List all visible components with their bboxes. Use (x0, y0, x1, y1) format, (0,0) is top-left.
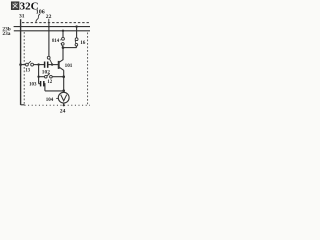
leader dash for 814 (60, 39, 61, 41)
switch S14 lever (61, 43, 63, 47)
wire tap from 23b down (48, 22, 50, 56)
svg-text:814: 814 (52, 39, 60, 44)
switch S14 upper lead (62, 31, 64, 38)
node on wire 31 for switch 13 (19, 63, 22, 66)
switch contact terminal circle (47, 56, 50, 59)
transistor 101 emitter slant (59, 67, 64, 70)
capacitor 102 left plate (44, 62, 46, 68)
switch 13 right contact circle (31, 63, 34, 66)
switch 13 lever (28, 61, 31, 64)
wire corner at bottom left (21, 104, 25, 106)
capacitor 103 right plate (43, 81, 45, 86)
capacitor 103 left lead (39, 83, 41, 85)
switch 12 left lead (39, 76, 45, 78)
node on emitter wire (62, 75, 65, 78)
svg-text:106: 106 (36, 10, 45, 16)
wire 23b (14, 26, 90, 28)
node on wire 23a at x63 (62, 30, 64, 32)
emitter wire down (63, 70, 65, 91)
base wire left segment (33, 64, 44, 66)
switch lever to base node (50, 59, 53, 64)
node at switch 12 branch (37, 76, 39, 78)
svg-text:16: 16 (80, 40, 86, 46)
capacitor 103 right lead and corner down (43, 84, 46, 91)
node at dashed line (63, 104, 65, 106)
svg-text:13: 13 (25, 69, 30, 74)
node on base wire (51, 63, 53, 65)
wire to lamp (45, 90, 64, 92)
switch S15 lower contact circle (75, 43, 78, 46)
switch S14 contact circle (62, 37, 65, 40)
switch 12 lever (47, 74, 50, 77)
collector wire down (62, 48, 64, 60)
switch 13 left lead (21, 64, 26, 66)
base wire right segment (48, 64, 59, 66)
title figure kanji 図 (12, 2, 19, 9)
lamp 24 V mark (61, 95, 67, 101)
svg-text:12: 12 (47, 80, 52, 85)
switch S15 lever (74, 40, 77, 43)
switch 12 right contact circle (50, 75, 53, 78)
wire 31 vertical (20, 19, 22, 105)
switch S15 contact circle (75, 38, 78, 41)
node on wire 23b at x49 (48, 26, 50, 28)
lamp 24 top lead (63, 91, 65, 93)
svg-text:23a: 23a (2, 31, 10, 37)
connector wire between switches (63, 47, 77, 49)
switch 12 right lead (52, 76, 64, 78)
lamp 24 bottom lead (63, 103, 65, 106)
junction node (62, 46, 65, 49)
switch 13 left contact circle (26, 63, 29, 66)
node at stub branch (37, 63, 39, 65)
dashed boundary left line (23, 32, 25, 104)
dashed boundary bottom line (25, 104, 91, 106)
leader for 106 (36, 14, 40, 22)
dashed boundary right line (87, 33, 89, 105)
leader tick for 22 (48, 19, 50, 23)
capacitor 102 right plate (47, 62, 49, 68)
svg-text:31: 31 (19, 14, 25, 20)
switch 12 left contact circle (45, 75, 48, 78)
switch S14 lower contact circle (62, 43, 65, 46)
wire 23a (14, 30, 90, 32)
switch S15 lower lead (76, 46, 78, 48)
leader dash for 104 (56, 97, 58, 99)
svg-text:24: 24 (60, 109, 66, 115)
transistor 101 collector slant (59, 60, 63, 63)
svg-text:103: 103 (29, 83, 37, 88)
branch wire down from base wire (38, 65, 40, 84)
node joining emitter wire and lamp (62, 89, 65, 92)
dashed boundary top line 22 (22, 22, 90, 24)
lamp 24 circle (58, 92, 69, 103)
capacitor 103 left plate (40, 81, 42, 86)
node on wire 23b at x76.6 (75, 25, 77, 27)
transistor 101 base bar (58, 61, 60, 69)
svg-text:104: 104 (46, 98, 54, 103)
switch S15 upper lead (76, 27, 78, 38)
svg-text:101: 101 (65, 63, 73, 69)
